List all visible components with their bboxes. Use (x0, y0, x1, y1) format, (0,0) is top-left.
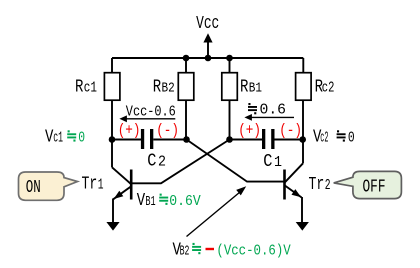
svg-text:B2: B2 (162, 81, 175, 97)
svg-text:0.6: 0.6 (260, 103, 287, 119)
svg-text:2: 2 (158, 155, 166, 171)
svg-text:Vcc-0.6: Vcc-0.6 (126, 103, 176, 120)
capacitor C2 (141, 129, 144, 149)
svg-text:(-): (-) (279, 122, 302, 140)
wire Rb1 bottom (229, 100, 231, 139)
svg-text:c2: c2 (320, 130, 328, 146)
junction node collector Tr1 / C2 (109, 136, 116, 143)
wire C2 right (153, 139, 186, 141)
ground arrow Tr2 (296, 222, 309, 231)
svg-text:c1: c1 (53, 130, 63, 146)
arrow C1 charge direction (247, 116, 294, 118)
svg-text:2: 2 (325, 177, 331, 194)
wire C2 node to Tr2 base (diagonal) (187, 140, 284, 182)
svg-text:OFF: OFF (363, 178, 386, 198)
callout ON (Tr1) (19, 172, 78, 200)
wire Rc1 bottom / collector node Tr1 (111, 100, 113, 167)
wire Tr1 emitter to ground (112, 199, 114, 223)
svg-text:(-): (-) (156, 122, 179, 140)
svg-text:c2: c2 (322, 81, 335, 97)
junction node Vcc-rail (205, 55, 212, 62)
svg-text:c1: c1 (84, 81, 97, 97)
svg-text:C: C (263, 152, 272, 172)
svg-text:R: R (153, 78, 162, 98)
callout OFF (Tr2) (334, 171, 402, 198)
svg-text:Tr: Tr (309, 175, 325, 195)
resistor Rc1 (104, 73, 120, 101)
svg-text:(+): (+) (118, 122, 141, 140)
svg-text:1: 1 (98, 177, 104, 194)
svg-text:0: 0 (78, 130, 85, 146)
resistor Rc2 (296, 73, 312, 101)
arrow VB2 to Tr2 base (187, 190, 244, 237)
svg-text:V: V (137, 191, 146, 211)
svg-text:R: R (75, 78, 84, 98)
junction node base net Tr2 / C2 (183, 136, 190, 143)
arrow C2 charge direction (122, 118, 175, 120)
Vcc supply arrow (207, 42, 209, 58)
resistor Rb1 (222, 73, 238, 101)
wire C1 left (230, 139, 263, 141)
wire C1 node to Tr1 base (diagonal) (132, 140, 230, 184)
transistor Tr2 (283, 170, 286, 200)
svg-text:(+): (+) (238, 122, 261, 140)
junction node collector Tr2 / C1 (299, 136, 306, 143)
svg-text:B1: B1 (145, 194, 155, 210)
wire top supply rail (112, 57, 303, 59)
wire Rc2 top (302, 58, 304, 73)
wire C2 left (112, 139, 141, 141)
svg-text:Vcc: Vcc (196, 14, 219, 34)
wire Rb1 top (229, 58, 231, 73)
svg-text:(Vcc-0.6)V: (Vcc-0.6)V (216, 243, 291, 259)
label =0.6 over C1 (248, 106, 257, 108)
wire Rb2 top (185, 58, 187, 73)
svg-text:B2: B2 (180, 244, 190, 260)
svg-text:ON: ON (26, 178, 41, 198)
transistor Tr1 (130, 170, 133, 200)
wire Rc1 top (111, 58, 113, 73)
wire Tr2 emitter to ground (301, 197, 303, 223)
svg-text:Tr: Tr (82, 175, 98, 195)
svg-text:0.6V: 0.6V (169, 193, 200, 210)
svg-text:0: 0 (348, 130, 355, 146)
svg-text:C: C (147, 152, 156, 172)
junction node Rb2-rail (183, 55, 190, 62)
junction node Rb1-rail (226, 55, 233, 62)
junction node base net Tr1 / C1 (226, 136, 233, 143)
wire Rb2 bottom (185, 100, 187, 139)
wire C1 right (275, 139, 303, 141)
ground arrow Tr1 (106, 222, 119, 231)
svg-text:B1: B1 (249, 81, 262, 97)
wire Rc2 bottom / collector node Tr2 (302, 100, 304, 163)
svg-text:1: 1 (274, 155, 282, 171)
resistor Rb2 (178, 73, 194, 101)
svg-text:R: R (240, 78, 249, 98)
capacitor C1 (262, 129, 265, 149)
